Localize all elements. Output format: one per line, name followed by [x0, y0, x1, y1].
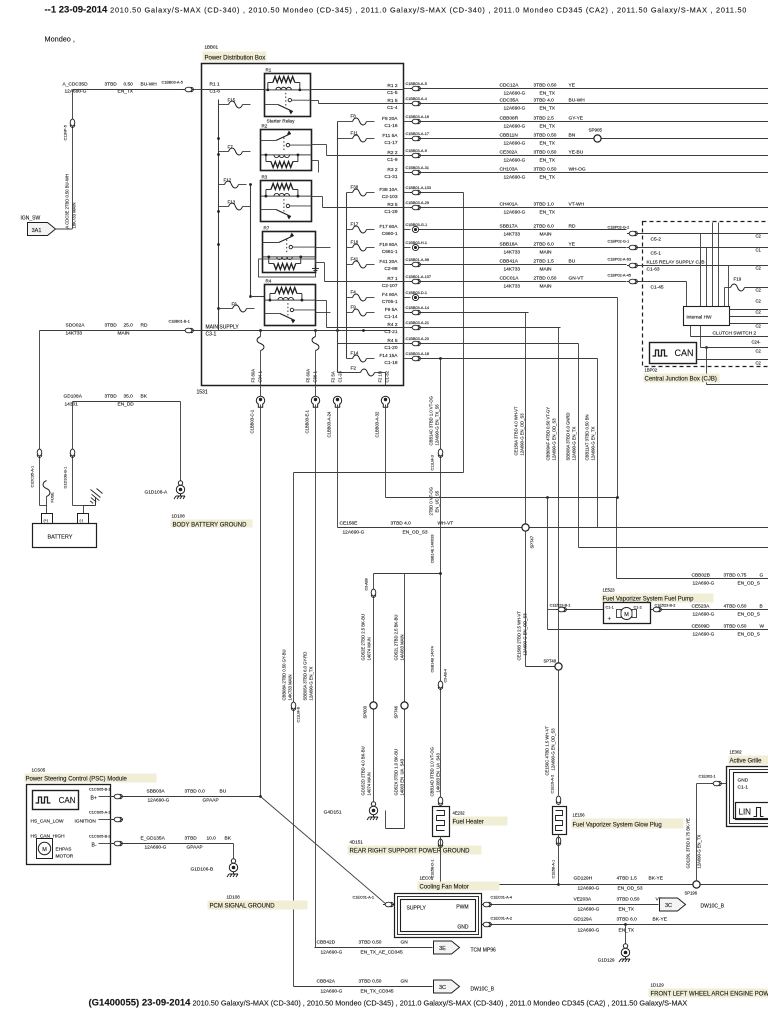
svg-text:EN_TX: EN_TX	[540, 91, 556, 97]
svg-text:3TBD 0.50: 3TBD 0.50	[534, 167, 557, 173]
svg-text:3TBD: 3TBD	[105, 82, 118, 88]
svg-text:RD: RD	[141, 323, 148, 329]
svg-text:14K733: 14K733	[504, 250, 521, 256]
svg-text:4TBD 0.50: 4TBD 0.50	[724, 604, 747, 610]
svg-text:EN_TX_AE_CD345: EN_TX_AE_CD345	[361, 950, 403, 956]
svg-text:3C: 3C	[439, 985, 446, 991]
svg-text:R3: R3	[262, 175, 268, 180]
svg-text:C1-4: C1-4	[387, 105, 398, 111]
svg-text:3TBD 0.50: 3TBD 0.50	[359, 940, 382, 946]
svg-text:C1BB03-A-9: C1BB03-A-9	[406, 149, 427, 153]
svg-text:Cooling Fan Motor: Cooling Fan Motor	[420, 885, 469, 891]
wire - diagonal to cooling fan supply	[261, 797, 387, 905]
svg-text:C2-107: C2-107	[382, 283, 398, 289]
svg-text:3C: 3C	[665, 903, 672, 909]
svg-text:C2-98: C2-98	[384, 266, 397, 272]
svg-text:F18 60A: F18 60A	[379, 242, 398, 248]
splice SP746	[401, 702, 408, 709]
svg-text:EN_DD: EN_DD	[118, 402, 135, 408]
svg-text:F17 60A: F17 60A	[379, 224, 398, 230]
svg-text:CDC12A: CDC12A	[500, 83, 520, 89]
svg-text:F38: F38	[351, 185, 359, 190]
svg-text:VE203A: VE203A	[574, 897, 592, 903]
svg-text:3TBD 4.0: 3TBD 4.0	[391, 521, 412, 527]
svg-text:1E302: 1E302	[730, 750, 743, 755]
svg-text:Central Junction Box (CJB): Central Junction Box (CJB)	[645, 377, 717, 383]
svg-text:G1D106-B: G1D106-B	[191, 867, 214, 873]
svg-text:12A690-G EN_OD_S3: 12A690-G EN_OD_S3	[551, 728, 556, 771]
svg-text:CE156B 2TBD 2.5 WH-VT: CE156B 2TBD 2.5 WH-VT	[517, 611, 522, 661]
svg-text:C1EC01-A-2: C1EC01-A-2	[491, 917, 513, 921]
svg-text:F5 60A: F5 60A	[306, 369, 311, 383]
svg-text:4D151: 4D151	[350, 840, 364, 845]
battery terminals	[42, 514, 53, 524]
wire - R4-2 branch down to SP748	[558, 328, 560, 667]
svg-text:14K733: 14K733	[504, 284, 521, 290]
svg-text:35.0: 35.0	[124, 394, 134, 400]
svg-text:C2: C2	[756, 299, 762, 304]
wire - R4-5 branch down	[578, 344, 580, 548]
fuel heater 4E232	[433, 807, 450, 837]
svg-text:12A690-G: 12A690-G	[321, 989, 343, 995]
splice SP748	[555, 663, 562, 670]
svg-text:F14 15A: F14 15A	[379, 353, 398, 359]
connector C1BB03-A-32	[381, 396, 389, 407]
svg-text:12A690-G: 12A690-G	[504, 210, 526, 216]
svg-text:EN_UC_S5: EN_UC_S5	[435, 490, 440, 512]
svg-text:CE156E: CE156E	[340, 521, 358, 527]
svg-text:CBB42D: CBB42D	[317, 940, 336, 946]
svg-text:(+): (+)	[44, 519, 48, 523]
svg-text:12A690-G EN_OD_S3: 12A690-G EN_OD_S3	[520, 413, 525, 456]
svg-text:HS_CAN_LOW: HS_CAN_LOW	[31, 819, 65, 825]
svg-text:1CS05: 1CS05	[32, 768, 46, 773]
svg-text:C1BB03-C-1: C1BB03-C-1	[250, 409, 255, 433]
svg-text:12A690-G: 12A690-G	[504, 91, 526, 97]
svg-text:SP196: SP196	[685, 891, 698, 896]
wire - CBB42A row to DW10C_B	[294, 986, 433, 988]
svg-text:C1BP02-A-63: C1BP02-A-63	[608, 258, 631, 262]
svg-text:C1BB03-A-4: C1BB03-A-4	[406, 97, 427, 101]
wire - row stubs to bus	[338, 343, 404, 345]
wire - glow plug down to ground row	[558, 835, 560, 885]
splice SP196	[693, 881, 700, 888]
svg-text:--1 23-09-2014 2010.50 Galaxy/: --1 23-09-2014 2010.50 Galaxy/S-MAX (CD-…	[45, 5, 748, 16]
svg-text:GN-VT: GN-VT	[569, 276, 584, 282]
svg-text:CE523A: CE523A	[692, 604, 711, 610]
svg-text:C3-AB-4: C3-AB-4	[444, 669, 448, 682]
svg-text:SDO02A: SDO02A	[66, 323, 86, 329]
svg-text:BK: BK	[225, 836, 232, 842]
svg-text:C1BB03-E-1: C1BB03-E-1	[305, 409, 310, 433]
svg-text:12A690-G EN_TX: 12A690-G EN_TX	[309, 667, 314, 701]
svg-text:GD129H: GD129H	[574, 876, 593, 882]
svg-text:1E523: 1E523	[603, 588, 616, 593]
svg-text:C1BB03-A-5: C1BB03-A-5	[406, 82, 427, 86]
svg-text:12A690-G EN_TX: 12A690-G EN_TX	[572, 427, 577, 461]
svg-text:CE302A: CE302A	[500, 150, 519, 156]
svg-text:C2: C2	[756, 234, 762, 239]
svg-text:C5-1: C5-1	[651, 251, 662, 257]
wire - CAN row	[697, 359, 768, 361]
svg-text:3TBD 0.0: 3TBD 0.0	[185, 789, 206, 795]
connector C1BB03-E-1	[311, 396, 319, 407]
svg-text:C1CS05-B-2: C1CS05-B-2	[89, 835, 111, 839]
wire - SP196 up to active grille	[696, 784, 698, 882]
internal HW box	[684, 307, 730, 326]
svg-text:1531: 1531	[197, 390, 208, 396]
svg-text:G1D108-A: G1D108-A	[145, 490, 168, 496]
svg-text:C2: C2	[756, 349, 762, 354]
svg-text:EN_TX: EN_TX	[540, 210, 556, 216]
svg-text:GD52E 2TBD 2.5 BK-BU: GD52E 2TBD 2.5 BK-BU	[361, 614, 366, 661]
wire - F9 branch down to SP747	[525, 313, 527, 528]
svg-text:CBB08R: CBB08R	[500, 116, 519, 122]
svg-text:SBB05A 3TBD 6.0 GY-RD: SBB05A 3TBD 6.0 GY-RD	[303, 652, 308, 701]
svg-text:C1-63: C1-63	[647, 267, 660, 273]
fuse F5	[315, 331, 317, 337]
svg-text:F41: F41	[351, 257, 359, 262]
svg-text:12A690-G: 12A690-G	[578, 907, 600, 913]
svg-text:F8 20A: F8 20A	[382, 116, 398, 122]
svg-text:Power Steering Control (PSC) M: Power Steering Control (PSC) Module	[26, 777, 128, 783]
svg-text:EN_TX_CD345: EN_TX_CD345	[361, 989, 394, 995]
svg-text:BU: BU	[220, 789, 227, 795]
svg-text:internal HW: internal HW	[687, 315, 713, 321]
wire - PDB left supply bus	[218, 100, 220, 331]
wire - relay R1 out	[311, 100, 319, 102]
svg-text:12A690-G EN_OD_S3: 12A690-G EN_OD_S3	[552, 418, 557, 461]
svg-text:EN_TX: EN_TX	[540, 141, 556, 147]
svg-text:GND: GND	[738, 778, 749, 784]
svg-text:C1E19-A-2: C1E19-A-2	[551, 775, 555, 794]
svg-text:C1BB01-A-107: C1BB01-A-107	[406, 275, 432, 279]
svg-text:C2-103: C2-103	[382, 194, 398, 200]
svg-text:12A690-G: 12A690-G	[578, 928, 600, 934]
svg-text:C661-1: C661-1	[382, 249, 398, 255]
svg-text:3TBD 0.50: 3TBD 0.50	[534, 83, 557, 89]
wire - SP748 down to glow plug	[558, 670, 560, 796]
EHPAS motor symbol	[37, 839, 53, 859]
svg-text:12A690-G: 12A690-G	[145, 845, 167, 851]
svg-text:C1-20: C1-20	[384, 345, 397, 351]
connector C11LM-3	[438, 449, 443, 457]
svg-text:C1BP02-G-2: C1BP02-G-2	[608, 226, 630, 230]
wire - SP747 down to SP748	[525, 531, 527, 667]
wire - F14 branch to CBB14C	[439, 357, 442, 360]
svg-text:C1BB03-A-20: C1BB03-A-20	[406, 337, 429, 341]
svg-text:A CDC3E 2TBD 0.50 BU-WH: A CDC3E 2TBD 0.50 BU-WH	[65, 174, 70, 228]
svg-text:MAIN: MAIN	[540, 267, 553, 273]
svg-text:R1: R1	[266, 68, 272, 73]
central junction box outline (dashed)	[643, 222, 768, 367]
svg-text:BK: BK	[141, 394, 148, 400]
svg-text:SUPPLY: SUPPLY	[407, 906, 427, 912]
svg-text:W: W	[760, 624, 765, 630]
svg-text:GD129A: GD129A	[574, 917, 593, 923]
svg-text:IGNITION: IGNITION	[75, 819, 97, 825]
svg-text:CDC35A: CDC35A	[500, 98, 520, 104]
svg-text:LIN: LIN	[739, 808, 752, 817]
fuse F3	[260, 331, 262, 337]
svg-text:C1-17: C1-17	[384, 140, 397, 146]
svg-text:F9 5A: F9 5A	[385, 307, 399, 313]
ground G1D129 front left wheel arch	[624, 923, 627, 926]
svg-text:14074 MAIN: 14074 MAIN	[367, 772, 372, 795]
svg-text:BK-YE: BK-YE	[649, 876, 663, 882]
svg-text:C2: C2	[756, 288, 762, 293]
svg-text:G1D129: G1D129	[598, 958, 615, 963]
svg-text:SP747: SP747	[530, 535, 535, 548]
CAN logo in PSC	[33, 791, 79, 810]
svg-text:CDC01A: CDC01A	[500, 276, 520, 282]
wire - main supply bus	[194, 330, 391, 332]
splice SP905	[594, 135, 601, 142]
svg-text:C1-21: C1-21	[384, 329, 397, 335]
svg-text:C24-: C24-	[752, 340, 762, 345]
svg-text:RD: RD	[569, 224, 576, 230]
svg-text:C1-5: C1-5	[387, 90, 398, 96]
wire - relay R7 rows	[316, 247, 331, 249]
svg-text:MAIN: MAIN	[540, 284, 553, 290]
svg-text:C11LM-3: C11LM-3	[431, 455, 435, 470]
svg-text:F41 20A: F41 20A	[379, 259, 398, 265]
svg-text:12A690-G: 12A690-G	[693, 581, 715, 587]
svg-text:4E232: 4E232	[453, 811, 466, 816]
svg-text:12A690-G: 12A690-G	[148, 798, 170, 804]
svg-text:SP905: SP905	[589, 128, 603, 133]
svg-text:CBB14E 14K033: CBB14E 14K033	[431, 535, 435, 564]
svg-text:CBB41A: CBB41A	[500, 259, 519, 265]
svg-text:EN_OD_S: EN_OD_S	[738, 612, 760, 618]
svg-text:C1-9: C1-9	[387, 157, 398, 163]
svg-text:1EC01: 1EC01	[420, 876, 434, 881]
svg-text:B: B	[760, 604, 763, 610]
svg-text:3TBD 0.50: 3TBD 0.50	[724, 624, 747, 630]
svg-text:SBB03A: SBB03A	[147, 789, 166, 795]
svg-text:CBB14B 14074: CBB14B 14074	[431, 646, 435, 672]
wire - F14 branch down	[597, 359, 599, 528]
wire - ignition vertical	[72, 90, 74, 229]
svg-text:MOTOR: MOTOR	[56, 854, 74, 860]
svg-text:C1-45: C1-45	[651, 285, 664, 291]
svg-text:2TBD 0 VT-OG: 2TBD 0 VT-OG	[429, 487, 434, 515]
svg-text:VT-WH: VT-WH	[569, 202, 585, 208]
svg-text:GD152D 2TBD 4.0 BK-BU: GD152D 2TBD 4.0 BK-BU	[361, 746, 366, 795]
CAN logo in CJB	[650, 343, 697, 364]
connector C1BB01-B-1 main supply	[183, 328, 194, 333]
svg-text:12A690-G EN_TX_S5: 12A690-G EN_TX_S5	[435, 404, 440, 446]
svg-text:1BP02: 1BP02	[645, 368, 658, 373]
svg-text:3TBD 4.0: 3TBD 4.0	[534, 98, 555, 104]
svg-text:DW10C_B: DW10C_B	[701, 904, 725, 910]
svg-text:R1 2: R1 2	[387, 83, 397, 89]
svg-text:GD52L 2TBD 2.5 BK-BU: GD52L 2TBD 2.5 BK-BU	[394, 615, 399, 661]
svg-text:B+: B+	[91, 796, 97, 802]
wire - internal HW right stubs	[730, 309, 768, 311]
svg-text:C34-1: C34-1	[258, 370, 263, 382]
svg-text:Fuel Vaporizer System Glow Plu: Fuel Vaporizer System Glow Plug	[573, 823, 662, 829]
svg-text:F11: F11	[351, 131, 359, 136]
connector C11LM-8	[291, 702, 296, 710]
svg-text:C1: C1	[756, 248, 762, 253]
svg-text:MAIN: MAIN	[540, 232, 553, 238]
wire - F38 branch down	[463, 193, 465, 473]
svg-text:14K733: 14K733	[504, 267, 521, 273]
svg-text:G: G	[760, 573, 764, 579]
svg-text:C5-2: C5-2	[651, 237, 662, 243]
svg-text:F2 5A: F2 5A	[331, 371, 336, 382]
wire - F12 feed to relay R4 coil	[250, 185, 252, 297]
svg-text:F38 10A: F38 10A	[379, 187, 398, 193]
svg-text:C1-16: C1-16	[384, 123, 397, 129]
svg-text:C1BB03-A-31: C1BB03-A-31	[406, 166, 429, 170]
svg-text:C11NP-5: C11NP-5	[64, 125, 68, 140]
svg-text:12A690-G EN_TX: 12A690-G EN_TX	[697, 835, 702, 869]
fuel vaporizer system fuel pump 1E523	[548, 609, 557, 611]
svg-text:12A690-G: 12A690-G	[578, 886, 600, 892]
svg-text:Power Distribution Box: Power Distribution Box	[205, 56, 266, 62]
svg-text:GD129L 3TBD 0.75 BK-YE: GD129L 3TBD 0.75 BK-YE	[686, 818, 691, 869]
svg-text:2TBD 6.0: 2TBD 6.0	[534, 242, 555, 248]
svg-text:3TBD 0.50: 3TBD 0.50	[534, 133, 557, 139]
svg-text:SBB17A: SBB17A	[500, 224, 519, 230]
svg-text:C1-29: C1-29	[384, 209, 397, 215]
svg-text:C1BB03-A-21: C1BB03-A-21	[406, 321, 429, 325]
svg-text:CBB02B: CBB02B	[692, 573, 710, 579]
svg-text:BU-WH: BU-WH	[141, 82, 158, 88]
svg-text:C1DC35-A-1: C1DC35-A-1	[31, 466, 35, 488]
svg-text:BU: BU	[569, 259, 576, 265]
battery	[33, 524, 97, 548]
svg-text:2TBD 0.50: 2TBD 0.50	[534, 276, 557, 282]
svg-text:GND: GND	[457, 925, 469, 931]
svg-text:EN_TX: EN_TX	[540, 175, 556, 181]
svg-text:CBB42A: CBB42A	[317, 979, 336, 985]
svg-text:C3-1: C3-1	[206, 332, 217, 338]
svg-text:CAN: CAN	[59, 796, 76, 805]
svg-text:C2: C2	[756, 310, 762, 315]
svg-text:EN_TX: EN_TX	[540, 106, 556, 112]
svg-text:3A1: 3A1	[32, 228, 42, 234]
svg-text:0.50: 0.50	[124, 82, 134, 88]
svg-text:REAR RIGHT SUPPORT POWER GROUN: REAR RIGHT SUPPORT POWER GROUND	[350, 849, 471, 855]
svg-text:3TBD: 3TBD	[185, 836, 198, 842]
wire - GD52L branch	[404, 574, 406, 829]
svg-text:C1-18: C1-18	[384, 360, 397, 366]
svg-text:F17: F17	[351, 222, 359, 227]
svg-text:14A063 MAIN: 14A063 MAIN	[400, 634, 405, 660]
power distribution box outline	[202, 64, 404, 386]
svg-text:SP600: SP600	[363, 705, 368, 718]
svg-text:R7: R7	[264, 226, 270, 231]
svg-text:C1BB03-A-24: C1BB03-A-24	[327, 411, 332, 438]
svg-text:SP746: SP746	[394, 705, 399, 718]
svg-text:SP748: SP748	[544, 659, 557, 664]
svg-text:C1-24: C1-24	[338, 370, 343, 382]
svg-text:C1BB01-A-98: C1BB01-A-98	[406, 258, 429, 262]
svg-text:WH-OG: WH-OG	[569, 167, 586, 173]
svg-text:C2: C2	[756, 361, 762, 366]
svg-text:BU-WH: BU-WH	[569, 98, 586, 104]
svg-text:DW10C_B: DW10C_B	[471, 987, 495, 993]
splice SP747	[522, 524, 529, 531]
svg-text:EN_OD_S3: EN_OD_S3	[618, 886, 643, 892]
svg-text:YE-BU: YE-BU	[569, 150, 584, 156]
svg-text:12A690-G: 12A690-G	[504, 106, 526, 112]
svg-text:12A690-G: 12A690-G	[504, 175, 526, 181]
svg-text:BN: BN	[569, 133, 576, 139]
svg-text:CBB11N: CBB11N	[500, 133, 519, 139]
svg-text:Mondeo ,: Mondeo ,	[45, 35, 75, 44]
svg-text:CH401A: CH401A	[500, 202, 519, 208]
svg-text:C1EC01-A-1: C1EC01-A-1	[353, 896, 375, 900]
wire - PDB inner bus 1	[337, 122, 339, 373]
svg-text:EN_TX: EN_TX	[619, 928, 635, 934]
svg-text:C705-1: C705-1	[382, 299, 398, 305]
svg-text:YE: YE	[569, 83, 575, 89]
svg-text:A_CDC35D: A_CDC35D	[63, 82, 89, 88]
svg-text:GPAAP: GPAAP	[187, 845, 203, 851]
svg-text:14074 MAIN: 14074 MAIN	[367, 637, 372, 660]
svg-text:C1-1: C1-1	[738, 785, 749, 791]
svg-text:FRONT LEFT WHEEL ARCH ENGINE P: FRONT LEFT WHEEL ARCH ENGINE POWER GROUN…	[651, 992, 768, 998]
svg-text:BK-YE: BK-YE	[653, 917, 667, 923]
svg-text:3TBD 6.0: 3TBD 6.0	[617, 917, 638, 923]
svg-text:2TBD 1.5: 2TBD 1.5	[534, 259, 555, 265]
svg-text:C1BB03-A-29: C1BB03-A-29	[406, 201, 429, 205]
svg-text:1D108: 1D108	[172, 514, 186, 519]
svg-text:EN_OD_S3: EN_OD_S3	[403, 530, 428, 536]
svg-text:CLUTCH SWITCH 2: CLUTCH SWITCH 2	[713, 331, 757, 337]
svg-text:GD108A: GD108A	[64, 394, 83, 400]
svg-text:3TBD 0.50: 3TBD 0.50	[617, 897, 640, 903]
svg-text:R4: R4	[266, 279, 272, 284]
svg-text:(G1400055) 23-09-2014 2010.50: (G1400055) 23-09-2014 2010.50 Galaxy/S-M…	[89, 998, 688, 1009]
svg-text:BATTERY: BATTERY	[48, 535, 73, 541]
svg-text:R3 2: R3 2	[387, 167, 397, 173]
svg-text:CE156C 4TBD 1.5 WH-VT: CE156C 4TBD 1.5 WH-VT	[545, 725, 550, 775]
wire - CBB42D row to TCM	[315, 947, 433, 949]
wire - CJB internal verticals	[700, 234, 702, 307]
svg-text:EN_TX: EN_TX	[619, 907, 635, 913]
svg-text:12A690-G EN_OD_S3: 12A690-G EN_OD_S3	[523, 613, 528, 656]
wire - F4 branch down	[617, 298, 619, 498]
wire - relay R3 rows	[312, 196, 323, 198]
wire - F5 feeder down	[315, 386, 317, 397]
svg-text:R1 1: R1 1	[210, 82, 220, 88]
svg-text:YE: YE	[569, 242, 575, 248]
svg-text:14K733: 14K733	[504, 232, 521, 238]
svg-text:EN_OD_S: EN_OD_S	[738, 581, 760, 587]
svg-text:GN: GN	[401, 979, 409, 985]
svg-text:3TBD: 3TBD	[105, 323, 118, 329]
svg-text:EN_TX: EN_TX	[540, 124, 556, 130]
svg-text:GPAAP: GPAAP	[203, 798, 219, 804]
wire - battery positive lead	[39, 331, 41, 506]
svg-text:CBB09AF 4TBD 0.50 VT-GY: CBB09AF 4TBD 0.50 VT-GY	[546, 407, 551, 461]
wire - CE609D feeder	[546, 496, 549, 499]
svg-text:GN: GN	[401, 940, 409, 946]
svg-text:C1CS05-B-1: C1CS05-B-1	[89, 788, 111, 792]
svg-text:12A690-G: 12A690-G	[693, 612, 715, 618]
svg-text:3TBD 2.5: 3TBD 2.5	[534, 116, 555, 122]
svg-text:C36-1: C36-1	[313, 370, 318, 382]
svg-text:3TBD: 3TBD	[105, 394, 118, 400]
svg-text:12A690-G: 12A690-G	[693, 632, 715, 638]
svg-text:(-): (-)	[80, 519, 84, 523]
svg-text:C1EC01-A-4: C1EC01-A-4	[491, 896, 513, 900]
